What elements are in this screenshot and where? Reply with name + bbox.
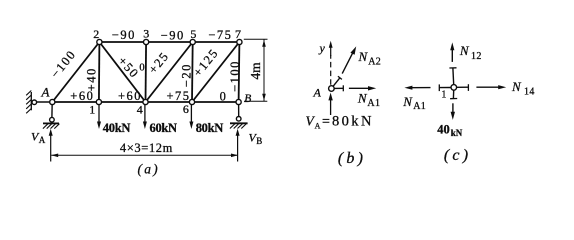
load stub below node 1 with cut tick	[450, 90, 457, 99]
node 1	[96, 99, 101, 104]
dimension 4m right side	[244, 39, 268, 101]
roller link support below B	[230, 102, 248, 129]
svg-text:12: 12	[471, 51, 482, 62]
svg-text:7: 7	[235, 27, 241, 41]
svg-text:4×3=12m: 4×3=12m	[120, 141, 173, 155]
bottom chord A-B	[52, 101, 238, 103]
vertical member 7-B	[238, 42, 241, 102]
node 5	[190, 39, 195, 44]
svg-text:y: y	[319, 41, 326, 55]
force arrow N_14	[476, 85, 506, 89]
node 3	[144, 39, 149, 44]
node 2	[97, 39, 102, 44]
svg-text:1: 1	[441, 90, 446, 101]
svg-text:N: N	[511, 79, 522, 94]
diagonal member 4-5	[146, 42, 193, 102]
svg-text:A2: A2	[368, 56, 381, 67]
reaction arrow V_A	[49, 129, 53, 162]
svg-text:N: N	[357, 91, 368, 106]
link pin circle below B	[236, 117, 241, 122]
link pin circle below A	[50, 117, 55, 122]
diagonal member A-2	[52, 42, 99, 102]
wall link pin circle	[32, 100, 37, 105]
force arrow N_A1	[349, 86, 376, 90]
svg-text:14: 14	[524, 87, 535, 98]
node 7	[237, 39, 242, 44]
svg-text:+60: +60	[118, 89, 142, 103]
svg-text:(b): (b)	[338, 150, 366, 167]
svg-text:A1: A1	[367, 98, 380, 109]
svg-text:(a): (a)	[138, 162, 160, 177]
svg-text:A: A	[313, 85, 322, 99]
member stub A-2 with cut tick	[333, 76, 342, 87]
svg-text:0: 0	[220, 89, 228, 103]
svg-text:N: N	[459, 43, 470, 58]
svg-text:N: N	[358, 49, 369, 64]
svg-text:(c): (c)	[444, 147, 471, 164]
diagonal member 6-7	[192, 42, 239, 102]
svg-text:80kN: 80kN	[196, 121, 224, 135]
svg-text:B: B	[256, 136, 262, 146]
svg-text:3: 3	[143, 27, 149, 41]
force arrow N_A1	[404, 86, 430, 90]
svg-text:4m: 4m	[248, 62, 263, 80]
force arrow N_12	[450, 42, 454, 62]
load arrow 60kN at node 4	[143, 104, 147, 130]
load arrow 40kN	[451, 103, 455, 120]
svg-text:40: 40	[437, 122, 450, 136]
vertical member 1-2	[98, 42, 101, 102]
member stub 1-A with cut tick	[439, 84, 451, 91]
svg-text:−90: −90	[161, 28, 185, 42]
top chord 2-7	[99, 41, 239, 43]
svg-text:−100: −100	[228, 60, 242, 92]
member stub 1-4 with cut tick	[457, 84, 469, 91]
vertical link support below A	[43, 102, 60, 129]
svg-text:−90: −90	[112, 28, 136, 42]
svg-text:1: 1	[89, 103, 95, 117]
member stub 1-2 with cut tick	[449, 68, 456, 85]
svg-text:+50: +50	[115, 54, 142, 81]
svg-text:2: 2	[93, 27, 99, 41]
diagonal member 2-4	[99, 42, 145, 102]
wall support at A	[26, 91, 52, 114]
svg-text:−100: −100	[48, 47, 79, 81]
node A	[50, 99, 55, 104]
svg-text:B: B	[244, 93, 251, 105]
y axis dashed	[329, 41, 333, 85]
svg-text:+40: +40	[85, 67, 99, 91]
svg-text:A: A	[41, 85, 50, 100]
load arrow 80kN at node 6	[189, 104, 193, 130]
svg-text:A: A	[39, 135, 46, 145]
reaction arrow V_A at joint	[328, 93, 332, 115]
svg-text:+125: +125	[190, 46, 221, 80]
dimension 4x3=12m bottom	[51, 154, 238, 158]
force arrow N_A2	[342, 46, 356, 73]
svg-text:−20: −20	[180, 63, 194, 87]
svg-text:A: A	[315, 121, 321, 130]
vertical member 5-6	[191, 42, 194, 102]
svg-text:+75: +75	[166, 89, 190, 103]
svg-text:6: 6	[183, 102, 189, 116]
reaction arrow V_B	[236, 129, 240, 162]
svg-text:A1: A1	[413, 101, 426, 112]
svg-text:80kN: 80kN	[332, 114, 374, 130]
svg-text:40kN: 40kN	[103, 121, 131, 135]
svg-text:60kN: 60kN	[150, 121, 178, 135]
joint circle 1	[451, 85, 457, 91]
node B	[236, 99, 241, 104]
svg-text:=: =	[322, 115, 330, 130]
svg-text:kN: kN	[451, 128, 463, 138]
svg-text:N: N	[402, 94, 413, 109]
load arrow 40kN at node 1	[97, 104, 101, 130]
svg-text:5: 5	[190, 27, 196, 41]
svg-text:4: 4	[137, 103, 143, 117]
node 4	[143, 99, 148, 104]
svg-text:−75: −75	[208, 28, 232, 42]
node 6	[189, 99, 194, 104]
vertical member 3-4	[145, 42, 148, 102]
member stub A-1 with cut tick	[334, 85, 343, 91]
joint circle A	[329, 86, 335, 92]
